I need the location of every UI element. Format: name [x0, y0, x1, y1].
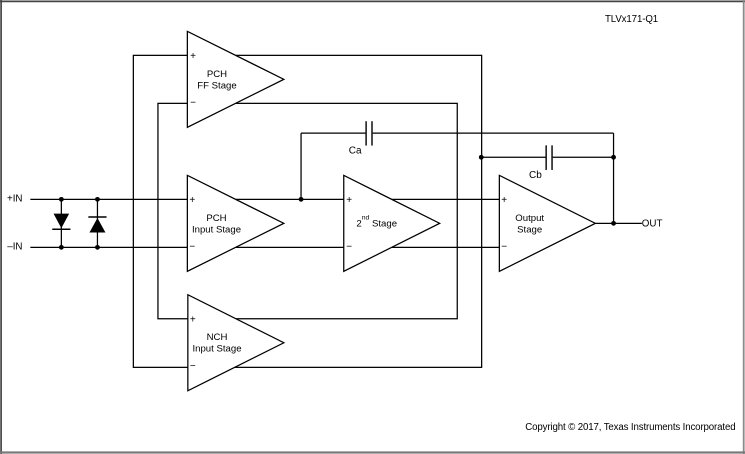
border frame top [0, 0, 745, 2]
wire Ca right lead [373, 132, 614, 134]
svg-text:−: − [501, 241, 507, 252]
node -IN/D1 [59, 245, 64, 250]
svg-text:−: − [190, 97, 196, 108]
svg-text:–IN: –IN [7, 242, 22, 253]
wire diode D2 branch [96, 199, 98, 247]
node +IN/D2 [95, 197, 100, 202]
wire Ca left lead [301, 132, 365, 134]
node dots [59, 155, 616, 250]
diode D1 (left, pointing down) [52, 214, 70, 230]
svg-text:Ca: Ca [349, 146, 362, 157]
svg-text:Output: Output [515, 213, 544, 224]
svg-text:+: + [501, 195, 507, 206]
svg-text:Input Stage: Input Stage [192, 344, 241, 355]
svg-text:PCH: PCH [206, 213, 226, 224]
wire diode D1 branch [60, 199, 62, 247]
svg-text:Stage: Stage [517, 224, 542, 235]
node Cb right [611, 155, 616, 160]
svg-text:TLVx171-Q1: TLVx171-Q1 [605, 14, 658, 25]
svg-text:+IN: +IN [7, 194, 23, 205]
svg-text:+: + [190, 314, 196, 325]
border frame right [743, 0, 745, 454]
svg-text:Input Stage: Input Stage [192, 224, 241, 235]
wire -IN line [30, 246, 499, 248]
svg-text:+: + [189, 195, 195, 206]
op-amp U1 PCH FF Stage [187, 31, 284, 127]
op-amp U2 PCH Input Stage [187, 175, 284, 271]
wire Cb left lead [481, 156, 545, 158]
op-amp U5 Output Stage [499, 175, 595, 271]
wire +IN line [30, 198, 499, 200]
wire outer loop rectangle (FF+ / NCH- net) [133, 55, 481, 367]
svg-text:FF Stage: FF Stage [197, 80, 236, 91]
node +IN/D1 [59, 197, 64, 202]
wire right vertical Ca to output node [613, 133, 615, 223]
svg-text:PCH: PCH [207, 69, 227, 80]
svg-text:NCH: NCH [207, 332, 228, 343]
node -IN/D2 [95, 245, 100, 250]
node A (+line to Ca) [299, 197, 304, 202]
border frame left [0, 0, 2, 454]
op-amp U4 2nd Stage [344, 175, 440, 271]
svg-text:+: + [190, 51, 196, 62]
node output [611, 221, 616, 226]
wire Cb right lead [553, 156, 614, 158]
wire output to OUT [595, 222, 642, 224]
wire inner loop rectangle (FF- / NCH+ net) [158, 103, 457, 318]
diode D2 (right, pointing up) [88, 217, 106, 232]
svg-text:−: − [189, 241, 195, 252]
capacitor Cb [545, 145, 552, 170]
op-amp U3 NCH Input Stage [188, 295, 284, 391]
svg-text:OUT: OUT [642, 218, 663, 229]
svg-text:Copyright © 2017, Texas Instru: Copyright © 2017, Texas Instruments Inco… [525, 422, 735, 433]
capacitor Ca [365, 121, 372, 145]
node Cb left [479, 155, 484, 160]
svg-text:+: + [346, 195, 352, 206]
svg-text:−: − [346, 241, 352, 252]
svg-text:Cb: Cb [529, 170, 542, 181]
svg-text:−: − [190, 361, 196, 372]
wire node A riser to Ca [300, 133, 302, 199]
border frame bottom [0, 451, 745, 453]
